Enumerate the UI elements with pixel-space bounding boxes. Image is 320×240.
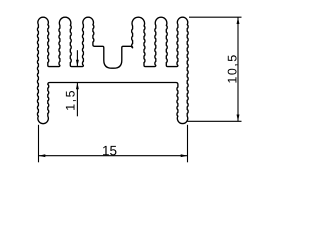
dimension 1,5 arrow down: [76, 60, 79, 67]
dimension 10,5 extension line top: [189, 16, 242, 18]
dimension 10,5 arrow down: [237, 115, 240, 122]
dimension 1,5 label: [66, 91, 76, 110]
dimension 15 extension line right: [187, 125, 189, 163]
dimension 1,5 dimension line lower segment: [76, 83, 78, 117]
dimension 10,5 extension line bottom: [188, 120, 242, 122]
dimension 1,5 dimension line upper segment: [76, 50, 78, 66]
dimension 15 arrow right: [181, 154, 188, 157]
heatsink profile outline: [37, 17, 188, 123]
dimension 10,5 dimension line: [237, 17, 239, 121]
dimension 10,5 label: [228, 55, 238, 82]
dimension 15 extension line left: [38, 125, 40, 163]
dimension 15 dimension line: [39, 155, 188, 157]
dimension 15 label: [103, 146, 116, 155]
dimension 1,5 arrow up: [76, 83, 79, 90]
dimension 15 arrow left: [39, 154, 46, 157]
dimension 10,5 arrow up: [237, 17, 240, 24]
